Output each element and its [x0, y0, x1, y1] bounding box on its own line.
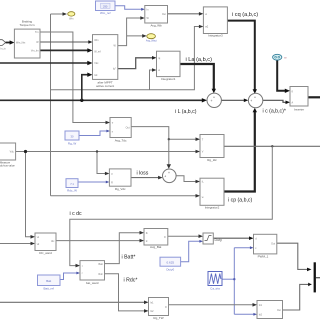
svg-text:Batt_ref: Batt_ref	[43, 287, 54, 291]
block DCDC regulator	[35, 233, 56, 255]
svg-text:Out: Out	[162, 13, 166, 16]
sum circle C3	[163, 169, 177, 183]
block Avg_Batt	[144, 229, 168, 250]
block blue constant Wm_ref	[96, 1, 116, 15]
wire Avg_Batt out into compare block in1	[168, 235, 201, 237]
svg-text:W_ref: W_ref	[94, 50, 101, 53]
svg-text:PWM_1: PWM_1	[258, 254, 269, 258]
svg-text:7.1: 7.1	[70, 182, 74, 186]
wire blue 0.625 const up into compare block in2	[181, 241, 200, 261]
wire EV out2 W into active-current in1	[40, 41, 90, 43]
svg-text:Rg_TW: Rg_TW	[153, 316, 163, 320]
wire i-block out y=146.3 to right edge with junction	[224, 145, 320, 147]
block EV braking torque	[14, 20, 40, 58]
svg-text:+: +	[250, 99, 252, 103]
svg-text:Integrator1: Integrator1	[161, 77, 176, 81]
block DC source measure at left edge	[0, 143, 16, 168]
wire i loss out into sum C3 left	[131, 177, 159, 179]
svg-text:i Batt*: i Batt*	[122, 255, 136, 261]
block blue constant 0.625	[160, 257, 181, 271]
block Avg_W	[145, 6, 168, 28]
wire inverter out thick to right edge	[308, 96, 320, 98]
svg-text:active current: active current	[96, 84, 114, 88]
svg-text:0.625: 0.625	[167, 261, 175, 265]
wire Tm: EV out1 right, down at x=72.9, right into Avg_Tdc in1	[40, 32, 107, 123]
wire riser x=149.5 from y=89.8 up into i-La block in2	[150, 70, 154, 90]
sum circle C2	[248, 93, 262, 107]
svg-text:+: +	[164, 174, 166, 178]
block i cp integrator	[200, 178, 224, 209]
wire active-current out W up to Avg_W in2	[118, 18, 142, 46]
wire Avg_Tdc out right, down into sum C3 top, branch to i-block in1	[131, 127, 197, 166]
wire blue const into battery block in2	[60, 273, 77, 280]
svg-text:Ca_tria: Ca_tria	[210, 286, 220, 290]
svg-text:Inverter: Inverter	[294, 107, 304, 111]
svg-text:bat_ward: bat_ward	[86, 281, 99, 285]
wire blue carrier net vertical x=234.3 feeding PWM blocks	[222, 248, 254, 315]
wire i cp thick: block out right then up into sum C2 bottom	[224, 111, 255, 192]
block blue constant near battery	[38, 275, 61, 291]
block battery currents	[80, 261, 105, 285]
svg-text:Duty0: Duty0	[166, 268, 174, 272]
block inverter top right	[290, 87, 308, 112]
wire from left edge y=302.3 into Rg_TW in1	[0, 301, 146, 303]
block compare relay	[203, 233, 213, 244]
wire Avg_W out into i-cq block in1	[168, 13, 201, 15]
svg-text:290: 290	[103, 5, 108, 9]
svg-text:Wm_Nm: Wm_Nm	[16, 41, 25, 44]
wire blue Wm_ref into Avg_W in1	[115, 6, 142, 10]
block active current controller	[93, 35, 118, 89]
wire Wm bottom corner right at y=195.8 into i-cp block in2	[51, 195, 198, 197]
wire compare out Duty into PWM_1 in1	[213, 237, 250, 239]
svg-text:+: +	[254, 96, 256, 100]
block blue constant Rg_W	[65, 131, 79, 145]
block PWM_2 bottom right	[257, 301, 283, 319]
svg-text:w: w	[202, 196, 204, 199]
svg-text:Avg_Tdc: Avg_Tdc	[115, 139, 127, 143]
svg-text:Vm_Im: Vm_Im	[31, 50, 39, 53]
wire PWM_1 out right-down into mux left	[277, 243, 309, 269]
wire Wm to goto oval Wm	[51, 13, 64, 15]
svg-text:w: w	[205, 13, 207, 16]
wire battery block out1 up into Avg_Batt in1	[105, 233, 142, 264]
block Rg_Vdc	[109, 169, 131, 191]
wire branch to goto oval Avg_Wact	[127, 35, 144, 37]
wire PWM_2 out right-up into mux right	[283, 284, 312, 310]
wire from left edge y=243.5 into DCDC block in2	[0, 243, 32, 245]
wire i La thick: block out right then down into sum C1 top	[180, 64, 214, 90]
svg-text:w: w	[158, 69, 160, 72]
wire Rg_TW out into PWM_2 in1	[169, 304, 255, 306]
wire blue const into Rg_Vdc in2	[78, 181, 106, 183]
svg-text:Batt: Batt	[46, 279, 51, 283]
svg-text:Rg_W: Rg_W	[68, 141, 77, 145]
svg-text:i La (a,b,c): i La (a,b,c)	[186, 57, 213, 63]
wire riser x=81.8 into active-current in4	[82, 75, 89, 101]
svg-text:i c (a,b,c)*: i c (a,b,c)*	[263, 109, 286, 115]
block Rg_TW bottom middle	[149, 298, 169, 320]
goto oval Wm	[68, 12, 75, 21]
svg-text:Out: Out	[277, 309, 281, 312]
sum circle C1	[207, 93, 221, 107]
goto oval Avg_Wact	[146, 34, 157, 43]
block PWM_1	[254, 234, 277, 258]
wire blue Rg_W const into Avg_Tdc in2	[79, 131, 107, 136]
svg-text:Wm_ref: Wm_ref	[100, 11, 111, 15]
svg-text:R: R	[111, 181, 113, 184]
svg-text:Tm_in: Tm_in	[0, 48, 6, 51]
wire battery block out2 down into Rg_TW in2	[105, 274, 146, 311]
svg-text:O: O	[165, 306, 167, 309]
svg-text:+: +	[168, 171, 170, 175]
svg-text:Wm: Wm	[94, 39, 98, 42]
svg-text:dc-bus value: dc-bus value	[0, 164, 15, 168]
wire i c dc net	[56, 146, 272, 265]
cyan from tag Van	[273, 54, 288, 60]
wire net from DC-source block out y=151.5	[16, 152, 197, 237]
svg-text:i Rdc*: i Rdc*	[124, 278, 138, 284]
svg-text:Avg_Bat: Avg_Bat	[150, 245, 161, 249]
wire Wm vertical trunk x=50.5 from y=14 to y=195.8	[50, 14, 52, 196]
svg-text:DC_ward: DC_ward	[39, 251, 52, 255]
svg-text:Out: Out	[126, 126, 130, 129]
svg-text:Integrator2: Integrator2	[205, 206, 220, 210]
wire mux out to right edge	[316, 277, 320, 279]
block i currents upper (out to right edge)	[200, 135, 224, 163]
svg-text:Duty: Duty	[215, 238, 223, 242]
svg-text:Tm: Tm	[35, 31, 38, 34]
svg-text:Iq*: Iq*	[113, 68, 116, 71]
wire sum C3 out into i-cp block in1	[176, 176, 197, 182]
svg-text:Torque Fcn: Torque Fcn	[19, 23, 34, 27]
block i La integrator	[157, 51, 181, 81]
svg-text:Avg_Wact: Avg_Wact	[146, 40, 157, 43]
wire bus from left edge y=100.3 into sum circle C1	[0, 99, 203, 101]
svg-text:i c dc: i c dc	[70, 211, 83, 217]
svg-text:i loss: i loss	[137, 171, 149, 177]
wire thick from cyan tag down then right into inverter in1	[277, 60, 286, 91]
wire active-current out Iq* into i-La block in1	[118, 58, 154, 69]
svg-text:Rdc_W: Rdc_W	[67, 189, 77, 193]
wire bus from left edge y=63 into active-current in3	[0, 62, 89, 64]
block carrier wave source	[208, 272, 222, 291]
wire sum C2 to inverter in2	[263, 100, 287, 102]
block blue constant lower left	[66, 179, 78, 193]
svg-text:i cp (a,b,c): i cp (a,b,c)	[228, 198, 252, 204]
svg-text:Out: Out	[271, 242, 275, 245]
svg-text:O: O	[164, 236, 166, 239]
svg-text:Integrator3: Integrator3	[208, 34, 223, 38]
wire i cq thick: block out right then down into sum C2 top	[227, 21, 254, 91]
wire Wm branch y=89.8 to risers	[51, 27, 201, 90]
svg-text:i L (a,b,c): i L (a,b,c)	[175, 109, 197, 115]
wire sum C1 to sum C2	[222, 99, 246, 101]
block Avg_Tdc	[110, 118, 131, 143]
svg-text:i cq (a,b,c): i cq (a,b,c)	[232, 12, 258, 18]
svg-text:Wm: Wm	[69, 17, 73, 20]
svg-text:Rg_Vdc: Rg_Vdc	[115, 187, 126, 191]
junction dot on bus at x=81.8	[80, 99, 83, 102]
mux bar	[314, 262, 316, 292]
input tag at left edge feeding EV block	[0, 40, 14, 51]
svg-text:+: +	[213, 95, 215, 99]
svg-text:Avg_Wb: Avg_Wb	[150, 23, 162, 27]
block i cq integrator	[203, 7, 227, 38]
wire EV Vm_Im thick into active-current in2	[40, 49, 89, 51]
svg-text:Rg_Idc: Rg_Idc	[207, 158, 217, 162]
svg-text:Batt: Batt	[99, 263, 104, 266]
